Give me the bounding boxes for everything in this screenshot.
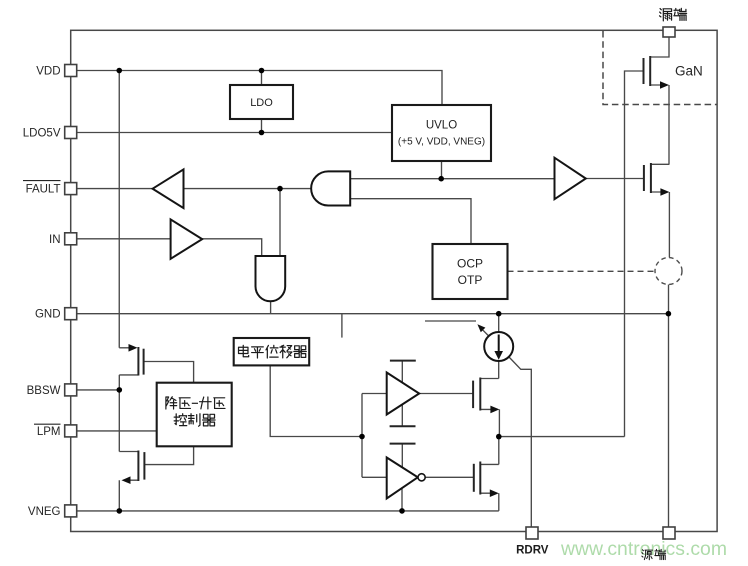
svg-text:FAULT: FAULT	[26, 184, 61, 196]
svg-text:(+5 V, VDD, VNEG): (+5 V, VDD, VNEG)	[398, 137, 485, 148]
svg-text:IN: IN	[49, 234, 61, 246]
svg-text:RDRV: RDRV	[516, 545, 549, 557]
svg-text:OTP: OTP	[458, 273, 483, 287]
svg-text:GaN: GaN	[675, 64, 703, 79]
svg-text:VNEG: VNEG	[28, 506, 61, 518]
svg-text:UVLO: UVLO	[426, 120, 457, 132]
svg-text:LDO5V: LDO5V	[23, 128, 61, 140]
svg-text:GND: GND	[35, 309, 61, 321]
svg-text:VDD: VDD	[36, 66, 60, 78]
svg-text:BBSW: BBSW	[27, 385, 61, 397]
svg-text:www.cntronics.com: www.cntronics.com	[560, 539, 727, 560]
svg-text:OCP: OCP	[457, 257, 483, 271]
svg-text:LDO: LDO	[250, 97, 273, 109]
svg-text:LPM: LPM	[37, 426, 61, 438]
